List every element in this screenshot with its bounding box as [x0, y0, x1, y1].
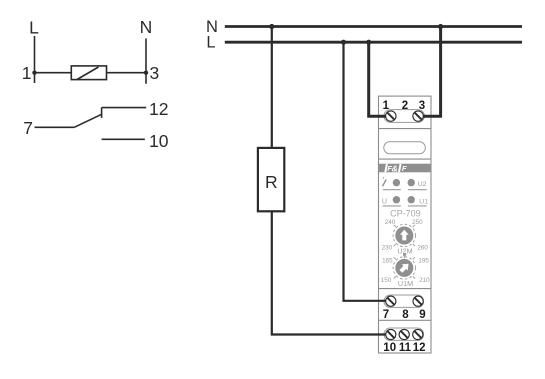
svg-text:CP-709: CP-709 [390, 209, 421, 219]
svg-text:7: 7 [383, 309, 389, 321]
svg-text:U: U [382, 196, 387, 205]
svg-text:10: 10 [383, 342, 396, 354]
relay module CP-709 body [379, 96, 432, 353]
svg-text:U1: U1 [419, 198, 428, 205]
svg-text:&: & [392, 163, 398, 173]
wire resistor to terminal 10 [272, 211, 388, 334]
svg-text:N: N [140, 17, 153, 37]
svg-text:12: 12 [149, 99, 168, 119]
wire fuse to node 3 [107, 72, 147, 74]
L bus wire [225, 41, 522, 44]
svg-text:10: 10 [149, 131, 169, 151]
knob U2M [393, 224, 415, 246]
node 3 junction dot [144, 71, 148, 75]
alarm LED lightning symbol [382, 178, 386, 186]
wire to 12 [102, 107, 147, 109]
terminal stadium 7-9 [384, 295, 424, 307]
pin labels 1 2 3 [383, 100, 426, 112]
DIN clip pill [384, 142, 426, 154]
contact 12 tick [101, 108, 103, 118]
svg-text:9: 9 [419, 309, 425, 321]
junction dot L bus to terminal 7 [341, 40, 346, 45]
LED row U1 [393, 196, 415, 203]
svg-text:U1M: U1M [398, 279, 413, 288]
wire node 1 to fuse [35, 72, 72, 74]
screw terminal 9 [413, 296, 423, 306]
wire N down to node 3 [145, 39, 147, 84]
screw terminal 12 [413, 329, 423, 339]
svg-text:230: 230 [382, 245, 393, 252]
knob U1M [393, 256, 415, 279]
svg-text:250: 250 [412, 219, 423, 226]
svg-text:R: R [265, 172, 278, 192]
svg-text:12: 12 [413, 342, 426, 354]
wire N bus to terminal 3 [420, 27, 441, 117]
node 1 junction dot [32, 71, 36, 75]
screw terminal 3 [413, 111, 423, 121]
screw terminal 7 [386, 296, 396, 306]
resistor R [258, 148, 284, 211]
wire contact 10 [102, 138, 145, 140]
wire from 7 [35, 126, 75, 128]
svg-text:U2: U2 [418, 181, 427, 188]
terminal stadium 10-12 [384, 328, 424, 340]
svg-text:260: 260 [417, 245, 428, 252]
screw terminal 11 [399, 329, 409, 339]
F&F logo banner [379, 163, 431, 173]
fuse/coil box F1 [71, 66, 106, 80]
underline row 1 [383, 189, 427, 191]
wire L down to node 1 [34, 36, 36, 83]
svg-text:1: 1 [22, 63, 32, 83]
junction dot N bus to resistor [269, 24, 274, 29]
junction dot L bus to terminal 1 [366, 40, 371, 45]
knob U2M scale labels [382, 219, 429, 252]
junction dot N bus to terminal 3 [438, 24, 443, 29]
svg-text:165: 165 [382, 257, 393, 264]
pin labels 10 11 12 [383, 342, 425, 354]
svg-text:195: 195 [418, 257, 429, 264]
switch blade 7-12 [74, 114, 102, 127]
svg-text:F: F [402, 164, 407, 173]
svg-text:L: L [29, 18, 39, 38]
pin labels 7 8 9 [383, 309, 426, 321]
svg-text:150: 150 [381, 277, 392, 284]
underline row 2 [383, 205, 427, 207]
screw terminal 10 [386, 329, 396, 339]
svg-text:3: 3 [150, 63, 160, 83]
svg-text:L: L [206, 34, 215, 52]
N bus wire [225, 25, 522, 28]
wire L bus to terminal 1 [369, 42, 388, 116]
knob U1M scale labels [381, 257, 430, 284]
svg-text:8: 8 [402, 309, 409, 321]
pointer square [403, 253, 406, 256]
terminal stadium 1-3 [384, 110, 424, 123]
screw terminal 1 [386, 111, 396, 121]
wire L bus to terminal 7 [344, 42, 389, 301]
svg-text:7: 7 [23, 118, 33, 138]
svg-text:210: 210 [419, 277, 430, 284]
wire N bus to resistor [271, 27, 273, 150]
LED row U2 [393, 179, 415, 186]
svg-text:11: 11 [399, 342, 412, 354]
